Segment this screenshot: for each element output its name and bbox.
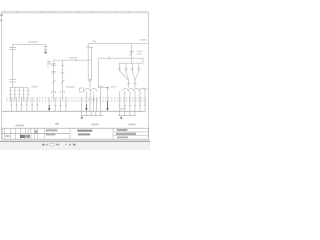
center lower drops	[82, 98, 97, 112]
earth arrow mid	[48, 105, 50, 109]
right distribution bus	[119, 62, 143, 64]
right bus feeder vertical	[142, 58, 144, 63]
toolbar page text	[56, 144, 59, 146]
title block right rows	[113, 132, 148, 136]
title text right line3	[117, 136, 128, 138]
label left of contact line2	[47, 63, 50, 64]
contact bars branch 1 upper	[51, 64, 56, 66]
label left of contact line1	[47, 61, 50, 62]
toolbar dot	[65, 144, 66, 145]
toolbar icon next	[70, 144, 72, 146]
wire mid horizontal	[54, 59, 92, 61]
title text cell1 line2	[46, 133, 56, 135]
combined vertical right	[134, 81, 136, 88]
page bottom edge	[0, 140, 150, 142]
label near stub	[110, 86, 115, 88]
connector arcs center	[85, 88, 91, 91]
title block columns	[5, 128, 113, 139]
terminal bar on wire a	[86, 46, 90, 48]
terminal strip dashed band bottom	[6, 100, 147, 102]
mid lower drop 4	[65, 98, 67, 112]
right lower ticks	[119, 104, 147, 106]
label below branch 2	[66, 86, 75, 88]
center drop 1	[85, 91, 87, 101]
mid lower drop 1	[48, 98, 50, 112]
title text date dark	[20, 135, 25, 138]
left group bus	[10, 86, 29, 88]
left drops upper	[10, 87, 28, 101]
right lower drops	[120, 98, 145, 112]
terminal strip dividers	[8, 98, 144, 100]
wire right horizontal upper	[98, 57, 143, 59]
earth arrow right of center	[107, 101, 109, 109]
right fuse drop 2	[125, 63, 128, 71]
mid lower drop 2	[54, 98, 56, 112]
label right of left bus	[32, 86, 39, 88]
branch 1 vertical	[53, 60, 55, 101]
junction dot stub	[107, 87, 109, 89]
toolbar icon first page	[42, 144, 44, 146]
plug arc branch 1	[51, 91, 55, 93]
breaker drop from center wire	[130, 44, 132, 64]
center vertical wire b	[90, 47, 92, 79]
title block mid line left	[2, 133, 70, 135]
junction tick on mid wire	[75, 59, 77, 61]
footer text right above block	[129, 124, 136, 126]
label above top-left wire	[28, 41, 38, 43]
cable comb center teeth	[82, 111, 101, 115]
contact bars branch 1 lower	[51, 72, 55, 73]
left drops lower	[11, 98, 37, 112]
title text center line2	[78, 133, 90, 135]
toolbar icon last page	[73, 144, 75, 146]
breaker symbol	[129, 52, 133, 56]
cable comb right bar	[118, 115, 136, 117]
right fuse drop 4	[137, 63, 140, 71]
riser to stub	[97, 58, 99, 87]
relay box center	[80, 88, 84, 92]
tick branch 2	[61, 72, 65, 74]
left margin label 1	[0, 14, 3, 16]
mid lower drop 3	[59, 98, 61, 112]
title text right line2	[116, 133, 136, 135]
stub lower drop	[100, 98, 102, 112]
frame left border	[1, 12, 3, 140]
footer text middle above block	[92, 124, 99, 126]
connector arcs right group	[123, 88, 145, 91]
footer text left above block	[15, 125, 23, 127]
frame right border	[147, 12, 149, 140]
center vertical wire a	[87, 44, 89, 79]
cable comb center bar	[81, 115, 103, 117]
terminal bar on wire b	[90, 46, 93, 48]
bottom collector bus	[3, 110, 146, 112]
mid lower ticks	[54, 104, 67, 106]
label right of arcs	[144, 88, 148, 90]
fuse F1	[44, 45, 48, 52]
tick on right wire	[108, 57, 110, 60]
tick combined right	[133, 82, 136, 84]
center drop 3	[93, 91, 95, 101]
tick branch 2 upper	[61, 65, 64, 67]
stub horizontal wire	[98, 87, 107, 89]
breaker label line2	[137, 53, 142, 55]
page number text bottom center	[55, 123, 59, 125]
branch 2 vertical	[62, 60, 64, 101]
title text right line1	[117, 129, 127, 131]
center drop 2	[89, 91, 91, 101]
cable comb right teeth	[120, 111, 135, 115]
terminal strip dashed band top	[6, 97, 147, 99]
main left feeder vertical	[12, 45, 14, 88]
left drop contact ticks	[9, 89, 29, 91]
fuse F1 body	[44, 52, 47, 54]
toolbar page box	[50, 143, 55, 145]
toolbar icon prev	[46, 144, 48, 146]
label above mid wire	[70, 57, 78, 59]
right drops to terminals	[120, 91, 145, 101]
earth arrow center	[85, 104, 87, 109]
shield arrow center comb	[81, 116, 83, 119]
wire center horizontal to right border	[88, 43, 148, 45]
wire top-left horizontal	[13, 44, 46, 46]
tick combined left	[127, 82, 130, 84]
label right of earth arrow	[120, 108, 126, 110]
junction X center	[88, 79, 91, 82]
converging wires right pair	[132, 71, 138, 81]
breaker slash branch 1	[52, 80, 55, 84]
center vertical below junction	[89, 81, 91, 88]
left drop symbol marks	[9, 94, 29, 96]
title text center line1	[77, 130, 92, 132]
breaker slash branch 2	[61, 80, 64, 84]
title text cell1 line1	[46, 129, 58, 131]
label small below	[47, 67, 49, 68]
stub drop 2	[107, 88, 109, 102]
title text date2	[26, 135, 30, 138]
title text small left	[5, 135, 9, 137]
right fuse drop 1	[118, 63, 121, 71]
stub drop 1	[100, 88, 102, 102]
breaker label line1	[137, 51, 143, 53]
drawing frame top ruler	[2, 12, 149, 13]
viewer bottom strip	[0, 142, 150, 150]
title block outline	[2, 128, 148, 139]
converging wires left pair	[120, 71, 129, 81]
shield arrow right comb	[120, 116, 122, 119]
left margin label 2	[0, 20, 2, 21]
right fuse drop 3	[131, 63, 134, 71]
disconnect switch bars top	[9, 47, 16, 49]
left lower ticks	[10, 104, 38, 106]
switch-fuse symbol lower on feeder	[9, 80, 16, 82]
combined vertical left	[128, 81, 130, 88]
plug arc branch 2	[60, 91, 64, 93]
label on center wire	[92, 41, 97, 43]
label right end of center wire	[140, 39, 147, 41]
title text col cell	[35, 130, 37, 133]
label above stub wire	[99, 86, 103, 88]
